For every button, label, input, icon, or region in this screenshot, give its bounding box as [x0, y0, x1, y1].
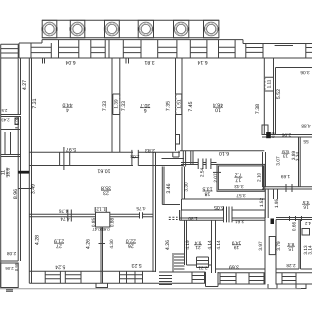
svg-text:3.69: 3.69 [229, 264, 239, 270]
dim 3.81 [144, 59, 154, 65]
corridor south wall [181, 209, 265, 211]
wing dash [15, 127, 17, 129]
svg-text:5.52: 5.52 [276, 89, 282, 99]
svg-text:4.76: 4.76 [59, 209, 69, 214]
dim 3.49 [30, 184, 36, 194]
dim 2.54 [199, 168, 204, 178]
room10 sw jog [162, 151, 186, 167]
dim 2.07 [213, 173, 218, 183]
dim 3.07 [276, 156, 281, 166]
column square 6 [204, 20, 219, 38]
svg-text:1.52: 1.52 [259, 198, 264, 208]
rooms21-19 wall [212, 220, 216, 273]
svg-text:4.27: 4.27 [22, 80, 28, 90]
stair flight lower [159, 276, 172, 285]
room17 box [217, 164, 265, 191]
room 17 label [234, 172, 242, 183]
dim 1.00 [15, 117, 19, 124]
svg-text:35.8: 35.8 [101, 185, 111, 191]
svg-text:8.96: 8.96 [13, 189, 19, 199]
room16 west wall [265, 189, 268, 218]
hall door jambs a [198, 159, 203, 170]
ground line [0, 288, 301, 290]
svg-text:22.0: 22.0 [126, 238, 136, 244]
room10 floor wall [180, 150, 264, 152]
room14 north wall [276, 67, 313, 69]
partition rooms 27-26 [101, 227, 103, 283]
bottom window b4 [192, 272, 205, 283]
band window w5 [158, 40, 177, 58]
corridor-room jog [180, 210, 182, 220]
dim 1.12 [96, 207, 106, 212]
bottom window b7 [282, 273, 296, 284]
wall rooms 6-10 thick [176, 58, 183, 151]
column circle 3 [105, 22, 119, 36]
door jambs corridor23 [68, 210, 72, 222]
black door bar 15 [271, 219, 275, 225]
hall door wall y163 [181, 163, 217, 165]
svg-text:0.8: 0.8 [271, 131, 276, 137]
dim 3.79 [276, 241, 281, 251]
dim 2.08 [7, 251, 17, 256]
svg-text:21.9: 21.9 [54, 238, 64, 244]
column square 4 [138, 20, 153, 38]
stair rail [159, 253, 190, 272]
dim 6.04 [65, 59, 75, 65]
band window w8 [246, 44, 263, 59]
svg-text:6.14: 6.14 [197, 59, 207, 65]
svg-text:44.0: 44.0 [62, 102, 72, 108]
room 4 label [62, 102, 72, 113]
door jambs room4 [60, 147, 70, 170]
corridor23 south wall [29, 214, 95, 217]
dim 4.28 [35, 235, 41, 245]
band window w2 [59, 40, 79, 58]
room 27 label [54, 238, 64, 249]
svg-text:0.47: 0.47 [92, 227, 101, 232]
svg-text:5.23: 5.23 [131, 262, 141, 268]
corridor23 south wall right [110, 214, 153, 217]
svg-text:4.14: 4.14 [216, 240, 221, 250]
svg-text:1.08: 1.08 [130, 154, 140, 159]
svg-text:1.39: 1.39 [114, 99, 119, 109]
column square 5 [174, 20, 189, 38]
room 21 label [194, 241, 202, 251]
svg-text:1.51: 1.51 [176, 99, 181, 109]
partition door tick [99, 243, 106, 245]
svg-text:10.61: 10.61 [97, 168, 110, 174]
svg-text:7.45: 7.45 [188, 101, 194, 111]
svg-text:3.07: 3.07 [276, 156, 281, 166]
room13 east wall [299, 137, 301, 187]
wing north window band [1, 44, 19, 58]
svg-text:7.33: 7.33 [121, 101, 127, 111]
door tick x141 [140, 212, 143, 218]
dim 10.61 [97, 168, 110, 174]
room 10 label [213, 102, 223, 113]
corridor west jog [181, 199, 183, 210]
niche 1.11 [265, 77, 274, 91]
dim 5.23 [131, 262, 141, 268]
wing bottom dashes [6, 290, 13, 292]
dim 6.05 [214, 204, 224, 210]
column square 1 [42, 20, 57, 38]
dim 8.96 [13, 189, 19, 199]
svg-text:7.33: 7.33 [102, 101, 108, 111]
dim 4.14 a [207, 240, 212, 250]
svg-text:46.4: 46.4 [213, 102, 223, 108]
bottom window b1 [45, 271, 60, 283]
dim 7.33 b [121, 101, 127, 111]
dim 7.31 [32, 98, 38, 108]
dim 2.43 [1, 118, 10, 123]
bottom band top left [190, 271, 206, 273]
dim 7.45 [188, 101, 194, 111]
dim 1.08 [130, 154, 140, 159]
svg-text:2.54: 2.54 [199, 168, 204, 178]
dim 3.43 [234, 184, 244, 189]
dim 55 [303, 139, 309, 144]
dim 3.30 [183, 182, 188, 192]
door recess rooms6-10 [173, 151, 179, 157]
corridor23 north wall [29, 165, 183, 167]
svg-text:6.04: 6.04 [65, 59, 75, 65]
svg-text:5.97: 5.97 [66, 146, 76, 152]
band window w4 [123, 40, 141, 58]
wing east wall upper [18, 58, 20, 115]
dim 7.35 [166, 101, 172, 111]
svg-text:0.88: 0.88 [109, 218, 114, 228]
corridor north wall right [217, 198, 265, 200]
band lintel recess [275, 45, 293, 47]
svg-text:3.46: 3.46 [166, 183, 172, 193]
dim 1.51 [176, 99, 181, 109]
room 15 label [287, 242, 295, 252]
band window w3 [91, 40, 109, 58]
dim 2.28 [286, 263, 296, 268]
door jambs room15 [290, 216, 302, 221]
dim 3.57 [236, 193, 246, 198]
dim 4.26 a [86, 239, 92, 249]
room14 west wall [275, 68, 277, 135]
svg-text:2.08: 2.08 [7, 251, 17, 256]
dim 6.14 [197, 59, 207, 65]
wing wall y129.5 [1, 129, 21, 131]
top wall band outline [19, 40, 312, 44]
svg-text:0.68: 0.68 [101, 227, 110, 232]
svg-text:55: 55 [303, 139, 309, 144]
svg-text:1.30: 1.30 [188, 216, 198, 221]
svg-text:3.49: 3.49 [30, 184, 36, 194]
niche rooms19-15 [269, 237, 275, 255]
wall x262 mid [263, 152, 266, 187]
wing small box 1.00 [15, 118, 19, 125]
svg-text:4.74: 4.74 [60, 217, 70, 222]
bottom band top right [218, 272, 312, 274]
dim 4.76 [59, 209, 69, 214]
shaft square [96, 212, 110, 227]
room 16 label [302, 200, 310, 210]
door jambs corridor-room13 [274, 189, 278, 199]
shaft door ticks [95, 207, 106, 212]
dim 1.69 [281, 174, 291, 179]
wall room10 east thick [264, 58, 273, 135]
dim 2.21 [198, 266, 208, 271]
dim 4.88 [301, 124, 311, 129]
dim 4.30 [109, 239, 114, 249]
dim 0.47 [92, 227, 101, 232]
column circle 2 [71, 22, 85, 36]
band window w7 [219, 40, 236, 58]
svg-text:4.26: 4.26 [86, 239, 92, 249]
column square 2 [70, 20, 85, 38]
niche room6 lower [176, 135, 180, 145]
room 11 label [1, 168, 11, 178]
bottom band bottom [29, 282, 312, 285]
svg-text:1.95: 1.95 [274, 199, 279, 209]
band window w9 [306, 44, 312, 59]
svg-text:0.95: 0.95 [14, 262, 19, 271]
room13 south wall [262, 187, 312, 189]
colonnade strip top line [42, 19, 219, 21]
svg-text:7.38: 7.38 [255, 104, 261, 114]
wall rooms 4-6 thick [112, 58, 120, 152]
svg-text:3.14: 3.14 [307, 245, 312, 255]
stairwell west wall [153, 152, 156, 272]
svg-text:2.28: 2.28 [286, 263, 296, 268]
svg-text:4.75: 4.75 [136, 206, 146, 211]
dim 5.97 [66, 146, 76, 152]
svg-text:2.21: 2.21 [198, 266, 208, 271]
room 19 label [232, 241, 242, 251]
svg-text:7.31: 7.31 [32, 98, 38, 108]
pilaster tab 2 [268, 284, 277, 289]
rooms top wall y219 [180, 218, 266, 220]
corridor north wall [182, 198, 217, 200]
svg-text:3.79: 3.79 [276, 241, 281, 251]
dim 4.74 [60, 217, 70, 222]
pilaster tab 3 [296, 284, 306, 289]
band window w1 [31, 43, 51, 58]
dim 3.14 [307, 245, 312, 255]
dim 3.83 [145, 147, 155, 153]
dim 4.14 b [216, 240, 221, 250]
svg-text:1.12: 1.12 [96, 207, 106, 212]
dim ticks below band [43, 58, 129, 64]
svg-text:3.61: 3.61 [235, 219, 245, 224]
wing tick y188.5 [18, 188, 31, 190]
svg-text:2.06: 2.06 [282, 132, 292, 137]
dim 1.52 [259, 198, 264, 208]
svg-text:2.5: 2.5 [1, 108, 7, 113]
exit opening [206, 272, 219, 287]
closet east wall [182, 167, 185, 200]
room18 room17 door jambs [224, 207, 233, 223]
column circle 6 [204, 22, 218, 36]
colonnade strip bottom line [42, 37, 219, 39]
wing wall y261 [1, 261, 19, 263]
svg-text:4.30: 4.30 [109, 239, 114, 249]
svg-text:3.43: 3.43 [234, 184, 244, 189]
svg-text:6.05: 6.05 [214, 204, 224, 210]
dim 0.66 [292, 222, 297, 232]
hall door jambs b [206, 159, 211, 170]
dim 2.06 wing [5, 266, 14, 271]
bottom window b2 [65, 271, 81, 283]
rooms 4-6 floor wall [29, 151, 180, 153]
bottom window b5 [220, 273, 236, 284]
stair flight room21 [197, 257, 209, 268]
wing extension lines [5, 132, 11, 155]
dim 4.75 [136, 206, 146, 211]
svg-text:1.11: 1.11 [267, 79, 272, 88]
closet bottom [162, 204, 180, 206]
niche 1.51 [176, 94, 182, 115]
dim 2.5 [1, 108, 7, 113]
svg-text:4.88: 4.88 [301, 124, 311, 129]
svg-text:3.83: 3.83 [145, 147, 155, 153]
svg-text:4.26: 4.26 [165, 240, 171, 250]
room 18 label [202, 185, 212, 196]
dim 0.85 [91, 218, 96, 228]
svg-text:2.43: 2.43 [1, 118, 10, 123]
room21 west wall [184, 220, 186, 265]
dim 4.2 [304, 221, 310, 226]
dim 2.10 [256, 172, 261, 182]
svg-text:13.5: 13.5 [202, 185, 212, 191]
main west wall [29, 58, 31, 283]
svg-text:5.24: 5.24 [55, 264, 65, 270]
door jambs room6 [132, 150, 138, 166]
dim 0.95 wing [14, 262, 19, 271]
svg-text:3.81: 3.81 [144, 59, 154, 65]
dim 3.46 [166, 183, 172, 193]
wing west wall [0, 44, 2, 287]
svg-text:1.00: 1.00 [15, 117, 19, 124]
room 13 label [282, 149, 290, 159]
black bar wing door [18, 171, 29, 174]
door jambs room10 [191, 151, 193, 165]
room 23 label [101, 185, 111, 196]
shaft wall x163 [162, 167, 164, 205]
dim 0.68 [101, 227, 110, 232]
svg-text:1.69: 1.69 [281, 174, 291, 179]
dim 3.69 [229, 264, 239, 270]
dim 1.95 [274, 199, 279, 209]
rooms19-15 thick wall [265, 211, 276, 285]
pilaster tab 1 [96, 283, 108, 287]
svg-text:7.2: 7.2 [235, 172, 242, 178]
dim 2.06 [282, 132, 292, 137]
stairwell east wall [185, 220, 187, 265]
stair flight upper [174, 254, 185, 269]
niche 1.39 [113, 94, 120, 115]
dim 3.34 [295, 152, 300, 162]
wing bottom box [1, 263, 19, 288]
wing wall y155 [1, 155, 21, 157]
right wall y134.5 [262, 135, 312, 138]
bottom window b3 [120, 271, 143, 283]
bottom window b6 [249, 273, 264, 284]
door sill room6 [132, 157, 138, 159]
dim 0.88 [109, 218, 114, 228]
column circle 4 [139, 22, 153, 36]
dim 3.97 [258, 241, 263, 251]
rooms15-16 wall y218 [276, 218, 312, 220]
svg-text:0.85: 0.85 [91, 218, 96, 228]
svg-text:3.06: 3.06 [300, 70, 310, 75]
dim 1.30 [188, 216, 198, 221]
dim 4.26 b [165, 240, 171, 250]
room15 east wall [299, 220, 301, 270]
floor wall mid [187, 264, 212, 266]
svg-text:3.57: 3.57 [236, 193, 246, 198]
niche rect top right [262, 125, 268, 135]
svg-text:0.66: 0.66 [292, 222, 297, 232]
wing wall y114.5 [1, 115, 21, 117]
dim 7.33 a [102, 101, 108, 111]
svg-text:4.19: 4.19 [185, 240, 190, 250]
svg-text:2.06: 2.06 [5, 266, 14, 271]
dim 3.13 [303, 245, 308, 255]
svg-text:6.10: 6.10 [219, 150, 229, 156]
dim 1.39 [114, 99, 119, 109]
column circle 1 [43, 22, 57, 36]
dim 3.06 [300, 70, 310, 75]
column circle 5 [174, 22, 188, 36]
floor wall left (band top) [29, 270, 155, 272]
svg-text:3.30: 3.30 [183, 182, 188, 192]
wing east wall lower [18, 117, 20, 262]
small fixture room16 [302, 229, 310, 236]
svg-text:3.97: 3.97 [258, 241, 263, 251]
dim 7.38 [255, 104, 261, 114]
svg-text:4.28: 4.28 [35, 235, 41, 245]
svg-text:4.14: 4.14 [207, 240, 212, 250]
dim 1.11 [267, 79, 272, 88]
dim 4.19 [185, 240, 190, 250]
dim 6.10 [219, 150, 229, 156]
dim 3.89 [291, 151, 296, 161]
svg-text:3.34: 3.34 [295, 152, 300, 162]
column square 3 [105, 20, 120, 38]
svg-text:30.7: 30.7 [140, 102, 150, 108]
dim 0.81 [271, 131, 276, 137]
dim 3.61 [235, 219, 245, 224]
closet dash room21 [169, 217, 178, 219]
dim ticks room13 south [286, 184, 292, 192]
svg-text:2.10: 2.10 [256, 172, 261, 182]
room 6 label [140, 102, 150, 113]
dim 4.27 [22, 80, 28, 90]
floor wall right [216, 268, 313, 270]
svg-text:18.6: 18.6 [6, 168, 11, 178]
band window w6 [190, 40, 207, 58]
black door bar right [266, 132, 271, 138]
svg-text:2.07: 2.07 [213, 173, 218, 183]
dim 5.52 [276, 89, 282, 99]
svg-text:4.2: 4.2 [304, 221, 310, 226]
dim 5.24 [55, 264, 65, 270]
room 26 label [126, 238, 136, 249]
svg-text:7.35: 7.35 [166, 101, 172, 111]
